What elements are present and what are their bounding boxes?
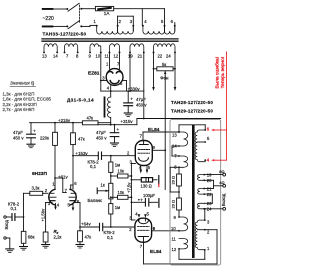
svg-text:1м: 1м	[115, 205, 120, 210]
svg-text:6: 6	[74, 181, 77, 186]
svg-text:Баланс: Баланс	[88, 198, 103, 203]
svg-text:2,7к - для 6Н6П: 2,7к - для 6Н6П	[3, 107, 35, 112]
pin 2 dot	[204, 229, 206, 231]
T1 secondary 13-14	[43, 44, 58, 54]
hum pot 5k Фон	[154, 67, 176, 76]
svg-text:19: 19	[128, 54, 133, 59]
EL84 bottom cathode wire	[131, 219, 135, 221]
red note text	[215, 57, 227, 89]
svg-text:~220: ~220	[43, 16, 54, 22]
svg-text:130 Ω: 130 Ω	[141, 183, 152, 188]
svg-text:7: 7	[140, 244, 143, 249]
svg-text:68к: 68к	[28, 235, 35, 240]
+315 feed wire to OPT	[137, 119, 221, 125]
+315 rail segment	[111, 124, 137, 126]
svg-text:9: 9	[153, 226, 156, 231]
svg-text:1: 1	[207, 246, 210, 251]
balance pot 1k	[97, 183, 113, 199]
label K78-2 top	[88, 159, 100, 169]
svg-text:+330v: +330v	[128, 86, 141, 91]
svg-text:450 v: 450 v	[13, 135, 24, 140]
svg-text:+: +	[117, 127, 120, 132]
svg-text:EZ81: EZ81	[88, 71, 100, 77]
svg-text:1к: 1к	[101, 182, 105, 187]
EL84 top grid wire	[134, 155, 136, 157]
pin 1 dot	[204, 249, 206, 251]
legend rows	[3, 91, 52, 112]
svg-text:3: 3	[102, 76, 105, 81]
svg-text:9: 9	[89, 54, 92, 59]
fuse 1A	[95, 6, 113, 10]
svg-text:21: 21	[138, 54, 143, 59]
svg-text:9: 9	[174, 215, 177, 220]
capacitor 100uF	[131, 198, 159, 208]
T1 primary winding 4-5	[143, 26, 165, 34]
svg-text:3: 3	[207, 220, 210, 225]
wire T1 pin12 to EZ81 anode 7	[119, 52, 121, 69]
input terminal	[4, 216, 12, 218]
svg-text:4: 4	[57, 203, 60, 208]
svg-text:20 Ω: 20 Ω	[171, 176, 176, 185]
svg-text:Фон: Фон	[160, 76, 169, 81]
svg-text:11: 11	[172, 237, 177, 242]
output 8 ohm	[204, 173, 225, 176]
heater wire 22 down with Фон pot	[152, 52, 155, 91]
OPT enclosure box	[170, 120, 221, 266]
tap labels	[207, 173, 212, 212]
T1 primary pin stubs and dots	[96, 25, 176, 27]
label C215	[13, 130, 24, 140]
divider resistor 1M top	[109, 156, 113, 184]
label C330	[136, 97, 147, 107]
svg-text:4: 4	[135, 212, 138, 217]
wire T1 pin19 down	[129, 52, 131, 91]
wire switch to fuse	[81, 8, 95, 10]
svg-text:ТАН29-127/220-50: ТАН29-127/220-50	[171, 109, 213, 114]
svg-text:3,3к: 3,3к	[32, 186, 40, 191]
svg-text:10к: 10к	[118, 169, 125, 174]
grid stopper 3,3k	[24, 191, 48, 217]
heater arrows EL84 top	[140, 166, 149, 174]
resistor 20 ohm top	[177, 167, 182, 193]
svg-text:2,2к - для 6Н23П: 2,2к - для 6Н23П	[3, 102, 37, 107]
svg-text:3: 3	[130, 19, 133, 24]
T1 primary winding 5-6	[165, 26, 175, 34]
svg-text:47к: 47к	[78, 137, 85, 142]
svg-text:20 Ω: 20 Ω	[171, 200, 176, 209]
OPT taps coil 23-24	[198, 203, 206, 209]
wire T1 pin21 down	[143, 52, 145, 91]
svg-text:5к: 5к	[162, 62, 166, 67]
plate wire y155.7 with cap K78-2 top	[73, 152, 135, 159]
V1a cathode wire	[46, 203, 52, 233]
labels V1b pins	[65, 181, 80, 204]
common output	[204, 207, 225, 210]
svg-text:6Н23П: 6Н23П	[32, 171, 47, 177]
svg-text:6: 6	[207, 127, 210, 132]
T1 secondary 11-12	[110, 44, 120, 52]
label K78-2 bottom	[104, 230, 116, 240]
svg-text:Выход: Выход	[221, 193, 226, 206]
svg-text:5: 5	[207, 136, 210, 141]
EL84 bottom g2 wire to OPT pin10	[152, 230, 180, 232]
wire T1 pin10 down (HV CT)	[100, 52, 102, 91]
svg-text:Теперь верно!: Теперь верно!	[220, 57, 226, 89]
ground under C330	[124, 113, 132, 117]
svg-text:2: 2	[129, 227, 132, 232]
label input cap	[8, 201, 20, 211]
svg-text:7: 7	[140, 134, 143, 139]
svg-text:1,3к - для 6Н2П: 1,3к - для 6Н2П	[3, 91, 35, 96]
svg-text:5: 5	[148, 165, 151, 170]
EL84 top anode wire to OPT pin13	[143, 131, 180, 140]
svg-text:0,1: 0,1	[90, 164, 97, 169]
svg-text:0,1: 0,1	[11, 206, 18, 211]
EL84 top tube	[135, 141, 152, 166]
svg-text:450 v: 450 v	[136, 102, 147, 107]
svg-text:+: +	[140, 198, 143, 203]
wire switch to pin 1	[81, 25, 97, 26]
resistor 47k cathode	[78, 227, 83, 245]
svg-text:9: 9	[153, 145, 156, 150]
resistor 47k driver plate	[71, 123, 76, 189]
V1b grid wire from +61 node	[55, 178, 66, 193]
svg-text:+1,56v: +1,56v	[41, 208, 46, 222]
link 22-23	[204, 194, 212, 203]
triode V1b	[69, 185, 76, 205]
svg-text:4: 4	[144, 19, 147, 24]
+215 rail	[30, 122, 83, 124]
heater wire 24 down	[174, 52, 177, 91]
feedback bracket	[170, 167, 179, 192]
svg-text:47к: 47к	[87, 115, 94, 120]
svg-text:ТАН33-127/220-50: ТАН33-127/220-50	[43, 31, 87, 36]
svg-text:100μF: 100μF	[143, 193, 155, 198]
OPT left coil 7-8	[178, 155, 188, 168]
svg-text:10: 10	[96, 54, 101, 59]
svg-text:14: 14	[53, 54, 58, 59]
rectifier tube EZ81	[106, 69, 123, 86]
svg-text:24: 24	[166, 54, 171, 59]
divider resistor 1M bottom	[109, 196, 113, 227]
svg-text:5: 5	[161, 19, 164, 24]
capacitor C215 47uF	[27, 123, 36, 145]
wire fuse to primary jumper	[114, 9, 165, 26]
wire +330 to OPT feed	[143, 91, 145, 119]
svg-text:8Ω: 8Ω	[219, 169, 224, 174]
wiper wire down	[164, 76, 166, 190]
OPT left coil 11-12	[178, 239, 188, 250]
OPT left coil 9-10	[179, 217, 188, 231]
wire T1 pin11 to EZ81 anode 1	[109, 52, 111, 69]
svg-text:4: 4	[207, 158, 210, 163]
svg-text:Значения R: Значения R	[10, 81, 35, 86]
input cap K78-2	[12, 214, 24, 221]
heater arrows EL84 bottom (up)	[138, 214, 147, 221]
resistor 220k	[53, 123, 58, 189]
pin 5 wire	[204, 141, 206, 143]
EZ81 pin labels 1 7	[106, 61, 120, 66]
inner loop pin12 to pin1	[179, 249, 205, 259]
labels 4 5 EL84 top	[139, 165, 151, 170]
svg-text:13: 13	[42, 54, 47, 59]
ground 47k cathode	[76, 245, 84, 249]
+330v rail	[101, 90, 144, 92]
svg-text:14: 14	[172, 144, 177, 149]
V1b cathode wire	[74, 203, 81, 228]
labels 4 5 EL84 bottom	[135, 212, 149, 217]
OPT taps coil 19-20	[198, 174, 206, 182]
mains terminal top	[42, 8, 69, 10]
resistor 47k rail	[82, 121, 110, 125]
T1 secondary 19-21	[130, 44, 144, 52]
svg-text:22: 22	[158, 54, 163, 59]
svg-text:5: 5	[120, 81, 123, 86]
svg-text:+215v: +215v	[58, 118, 71, 123]
svg-text:7: 7	[66, 54, 69, 59]
cathode resistor 130 ohm	[131, 176, 158, 184]
choke D31-5-0,14	[104, 91, 112, 126]
svg-text:+: +	[130, 97, 133, 102]
svg-text:1,6к - для 6Н1П, ECC85: 1,6к - для 6Н1П, ECC85	[3, 97, 52, 102]
capacitor C330 47uF	[124, 91, 133, 113]
capacitor C315 47uF	[110, 125, 119, 143]
triode V1a	[49, 178, 56, 205]
svg-text:6: 6	[171, 19, 174, 24]
ground Rk	[42, 245, 50, 249]
resistor 10k top	[111, 174, 133, 178]
svg-text:2: 2	[127, 151, 130, 156]
resistor 20 ohm bottom	[177, 192, 182, 218]
svg-text:12: 12	[114, 54, 119, 59]
svg-text:+: +	[33, 128, 36, 133]
labels 9 10 11 12	[171, 215, 177, 252]
EL84 bottom anode wire	[144, 230, 218, 264]
label C315	[96, 130, 107, 140]
svg-text:4: 4	[107, 86, 110, 91]
svg-text:EL84: EL84	[150, 249, 162, 255]
jumper pins 2-3	[118, 16, 134, 25]
heater arrows V1	[54, 204, 74, 212]
svg-text:2: 2	[119, 19, 122, 24]
input terminal lower	[4, 237, 10, 249]
pin 4 wire	[204, 159, 206, 161]
svg-text:1: 1	[94, 19, 97, 24]
pin 3 wire	[204, 208, 206, 221]
resistor 10k bottom	[111, 195, 133, 199]
svg-text:ТАН28-127/220-50: ТАН28-127/220-50	[171, 100, 213, 105]
red correction wire	[211, 52, 227, 161]
wire EZ81 pin5	[122, 81, 126, 92]
svg-text:+64v: +64v	[81, 222, 91, 227]
T1 secondary 9-10	[89, 44, 101, 54]
red mark under bar	[158, 184, 160, 187]
svg-text:47к: 47к	[85, 234, 92, 239]
labels V1a pins	[45, 182, 56, 206]
svg-text:1А: 1А	[104, 11, 111, 16]
wire EZ81 pin4 down	[110, 85, 112, 92]
svg-text:0,1: 0,1	[107, 235, 114, 240]
T1 secondary 22-24	[153, 44, 175, 52]
T1 primary extra stubs	[118, 23, 175, 32]
svg-text:220к: 220к	[40, 135, 49, 140]
T1 secondary pin labels	[42, 54, 171, 59]
svg-text:5: 5	[147, 212, 150, 217]
mains terminal bottom	[42, 25, 69, 27]
svg-text:1м: 1м	[115, 163, 120, 168]
svg-text:+7,5v: +7,5v	[127, 182, 132, 193]
svg-text:8: 8	[76, 54, 79, 59]
T1 primary pin labels	[94, 19, 174, 24]
ground 68k	[20, 247, 28, 251]
svg-text:10: 10	[171, 226, 176, 231]
EL84 bottom tube	[135, 218, 152, 242]
svg-text:2,2к: 2,2к	[54, 234, 62, 239]
svg-text:10к: 10к	[118, 190, 125, 195]
bottom wire y226 with cap K78-2 bottom	[80, 223, 134, 230]
svg-text:к: к	[33, 83, 35, 87]
ground under C315	[111, 143, 119, 147]
label Rk 2,2k	[54, 229, 62, 239]
OPT taps coil 21-22	[198, 188, 205, 195]
svg-text:450 v: 450 v	[96, 135, 107, 140]
EL84 top cathode wire	[131, 164, 136, 221]
ground input	[6, 249, 14, 253]
svg-text:2: 2	[45, 188, 48, 193]
svg-text:Вход: Вход	[4, 219, 9, 229]
svg-text:Была ошибка!: Была ошибка!	[215, 57, 221, 89]
svg-text:12: 12	[172, 247, 177, 252]
T1 secondary 7-8	[64, 44, 79, 54]
OPT right coil 6-5-4	[195, 130, 205, 162]
T1 primary winding 2-3	[118, 26, 134, 34]
svg-text:4Ω: 4Ω	[219, 180, 224, 185]
pin 6 wire	[178, 125, 206, 133]
svg-text:Д31-5-0,14: Д31-5-0,14	[67, 98, 94, 103]
OPT labels TAN28/29	[171, 100, 213, 114]
OPT core	[192, 125, 195, 259]
resistor Rk 2,2k	[43, 232, 48, 245]
resistor 68k	[21, 217, 26, 247]
T1 secondary extra dots	[100, 51, 176, 53]
labels 13 14 7 8	[172, 133, 177, 170]
wire EZ81 pin3	[101, 80, 107, 82]
T1 core	[42, 39, 178, 41]
output 4 ohm link	[204, 180, 225, 188]
labels 4 5 heater	[57, 203, 71, 208]
svg-text:1: 1	[106, 61, 109, 66]
svg-text:13: 13	[172, 133, 177, 138]
OPT left coil 13-14	[178, 132, 188, 147]
EL84 bottom grid wire	[134, 226, 135, 228]
T1 primary winding 1-2	[97, 26, 118, 34]
svg-text:+315v: +315v	[121, 119, 134, 124]
jumper 14-7	[172, 146, 179, 156]
switch S1	[68, 3, 82, 29]
legend heading	[10, 81, 36, 87]
svg-text:47μF: 47μF	[136, 97, 146, 102]
EL84 top g2 wire	[152, 149, 165, 151]
svg-text:11: 11	[105, 54, 110, 59]
OPT right coil 3-2-1	[195, 220, 205, 250]
ground under C215	[27, 144, 35, 148]
svg-text:8: 8	[77, 199, 80, 204]
svg-text:8: 8	[174, 164, 177, 169]
